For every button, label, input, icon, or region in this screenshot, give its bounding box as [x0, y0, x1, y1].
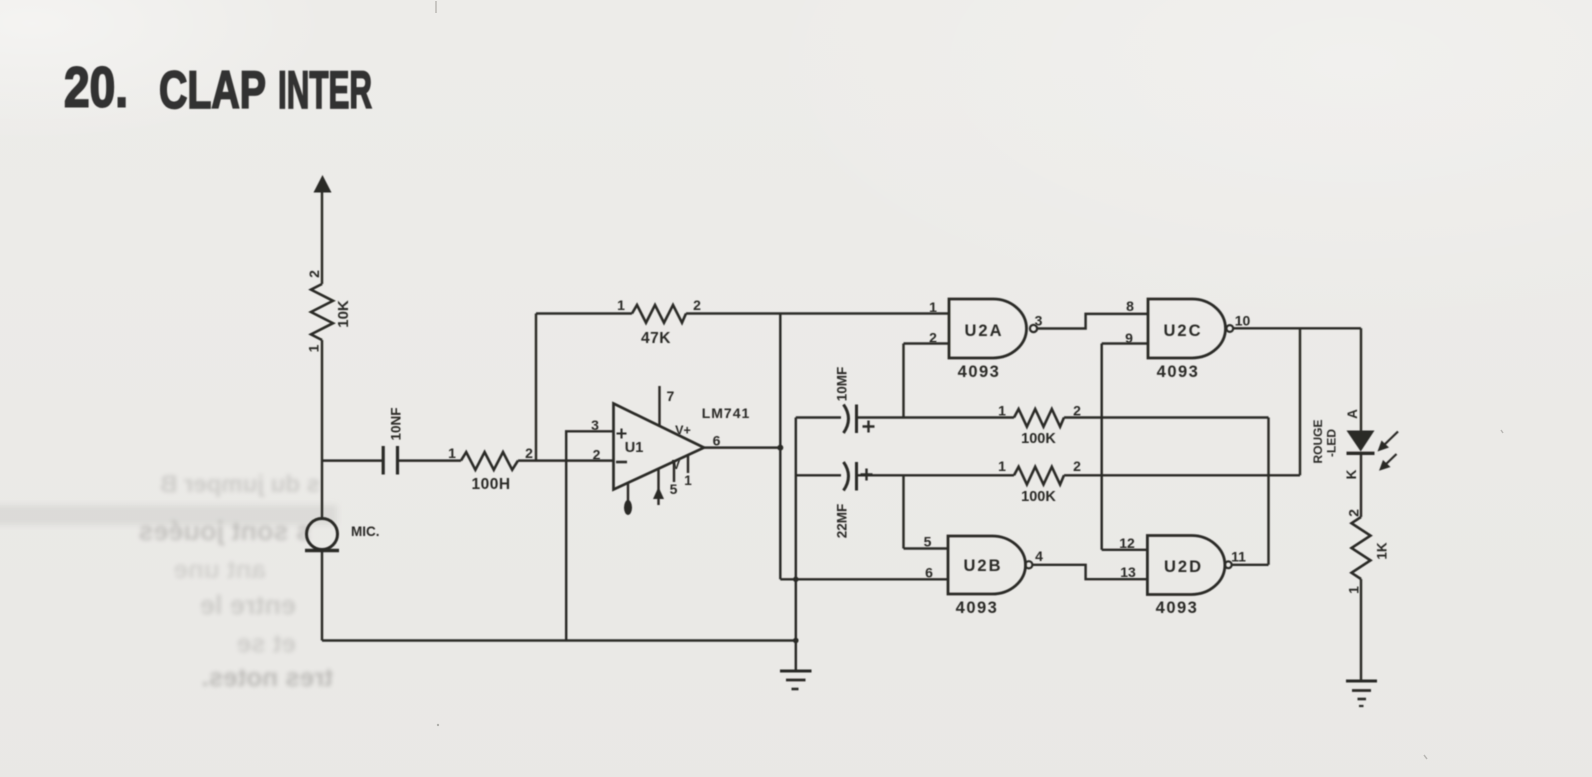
svg-text:10MF: 10MF: [835, 367, 850, 402]
svg-text:U1: U1: [625, 440, 644, 456]
wire U2D out riser to 100K top: [1267, 418, 1269, 565]
title: 20. CLAP INTER: [64, 56, 372, 121]
node dot ground-bottom: [793, 638, 799, 644]
wire U2B pin5: [904, 547, 949, 549]
wire node to 10NF: [322, 459, 383, 461]
wire U2A pin2: [904, 342, 950, 344]
svg-text:4093: 4093: [1157, 363, 1200, 381]
wire feedback left vertical: [535, 314, 537, 461]
svg-text:INTER: INTER: [278, 61, 372, 120]
svg-text:5: 5: [670, 481, 678, 497]
wire U2C pin9: [1102, 342, 1148, 344]
wire U2D pin12: [1102, 549, 1148, 551]
wire U2B out step to U2D pin13: [1033, 565, 1148, 579]
ghost text line: tres notes: [183, 662, 333, 693]
LED light arrow 2: [1384, 454, 1397, 467]
wire feedback top rail to U2A pin1: [536, 312, 949, 314]
ghost text line: entre le: [127, 590, 296, 621]
wire 1K to ground: [1360, 579, 1362, 681]
svg-text:LM741: LM741: [702, 405, 751, 421]
svg-text:1: 1: [684, 473, 692, 488]
svg-text:6: 6: [713, 433, 721, 449]
svg-text:4093: 4093: [1156, 599, 1199, 617]
wire cap row bottom: [796, 474, 841, 476]
ghost text line: et se: [219, 628, 296, 659]
svg-text:11: 11: [1231, 549, 1246, 565]
wire U2A out step to U2C pin8: [1037, 314, 1148, 329]
svg-text:1: 1: [998, 403, 1006, 419]
svg-text:100K: 100K: [1021, 431, 1056, 447]
wire mic down: [321, 551, 323, 641]
op-amp minus sign: [616, 461, 627, 464]
wire ground rail vertical: [795, 418, 797, 672]
ghost text line: ant une: [154, 554, 266, 585]
svg-text:-LED: -LED: [1325, 429, 1339, 457]
svg-text:20.: 20.: [64, 56, 128, 120]
svg-text:2: 2: [593, 447, 601, 463]
wire U2C out to LED corner: [1233, 327, 1361, 329]
wire 22MF to 100K: [857, 474, 1015, 476]
wire bottom rail: [322, 639, 796, 641]
wire 22MF to U2B pin5 riser: [902, 475, 904, 548]
svg-text:4093: 4093: [956, 599, 999, 617]
op-amp pin 4 stub: [657, 469, 659, 505]
svg-text:U2A: U2A: [964, 322, 1003, 340]
op-amp plus sign: [617, 429, 627, 439]
op-amp pin 7 stub: [658, 386, 660, 426]
svg-text:K: K: [1344, 469, 1359, 479]
resistor R 100K bottom zigzag: [1014, 467, 1064, 485]
resistor R 100K top zigzag: [1014, 409, 1064, 427]
svg-text:2: 2: [693, 297, 701, 313]
svg-text:13: 13: [1120, 564, 1136, 580]
wire U2D out: [1232, 564, 1269, 566]
ground symbol left: [780, 670, 812, 673]
svg-text:7: 7: [667, 388, 675, 404]
wire U2B pin6 rail: [780, 578, 948, 580]
power arrow V+: [314, 175, 332, 193]
svg-text:100H: 100H: [471, 476, 510, 493]
wire U2C pin9 riser: [1100, 344, 1102, 550]
wire 100H to op-amp: [518, 459, 614, 461]
svg-text:U2B: U2B: [963, 557, 1002, 575]
node dot ground-pin6: [793, 577, 799, 583]
ghost band (bleed-through streak): [0, 505, 337, 525]
resistor R 47K zigzag: [632, 305, 686, 323]
svg-text:2: 2: [1073, 403, 1081, 419]
svg-text:V: V: [672, 458, 681, 472]
svg-text:100K: 100K: [1021, 489, 1056, 505]
svg-text:9: 9: [1125, 330, 1133, 346]
svg-text:U2C: U2C: [1163, 322, 1202, 340]
nand gate U2A: [949, 299, 1027, 358]
wire 100K top to U2D out corner: [1064, 416, 1269, 418]
svg-text:10: 10: [1235, 313, 1251, 329]
wire output bus vertical: [779, 314, 781, 580]
wire op-amp output pin6: [704, 446, 780, 448]
wire supply shaft: [321, 189, 323, 284]
svg-text:8: 8: [1126, 298, 1134, 314]
microphone MIC: [307, 519, 338, 550]
svg-text:3: 3: [1035, 313, 1043, 329]
svg-text:22MF: 22MF: [835, 504, 850, 539]
wire LED to 1K: [1360, 453, 1362, 517]
nand gate U2C: [1148, 299, 1226, 358]
op-amp pin 5 stub: [673, 462, 675, 482]
wire LED corner down: [1360, 328, 1362, 430]
svg-text:1: 1: [998, 458, 1006, 474]
op-amp pin 1 stub: [687, 455, 689, 473]
svg-text:1: 1: [448, 445, 456, 461]
svg-text:1: 1: [617, 297, 625, 313]
svg-text:1: 1: [1346, 586, 1362, 594]
svg-text:12: 12: [1119, 535, 1135, 551]
svg-text:V+: V+: [675, 424, 691, 438]
capacitor C 10MF: [844, 405, 849, 434]
svg-text:1K: 1K: [1375, 542, 1390, 560]
capacitor C 22MF: [844, 462, 849, 491]
LED D1 triangle: [1347, 431, 1375, 452]
svg-text:MIC.: MIC.: [351, 524, 380, 539]
svg-text:ROUGE: ROUGE: [1311, 419, 1325, 463]
LED cathode bar: [1347, 452, 1375, 455]
svg-text:3: 3: [591, 417, 599, 433]
svg-text:10NF: 10NF: [389, 407, 404, 440]
wire 100K bottom riser to LED rail: [1299, 328, 1301, 475]
LED light arrow 1: [1382, 432, 1398, 448]
svg-text:6: 6: [925, 565, 933, 581]
svg-text:U2D: U2D: [1164, 558, 1203, 576]
ghost text line: du jumper B: [127, 471, 320, 499]
wire U2A pin2 riser: [902, 344, 904, 418]
op-amp U1 triangle: [614, 404, 705, 490]
nand gate U2D: [1147, 536, 1225, 595]
wire 100K bottom to LED corner: [1064, 474, 1300, 476]
op-amp pin 8 stub: [627, 482, 629, 501]
wire riser pin3 to ground rail: [566, 431, 613, 640]
svg-text:47K: 47K: [641, 330, 671, 347]
svg-text:2: 2: [1346, 509, 1362, 517]
svg-text:4093: 4093: [958, 363, 1001, 381]
svg-text:2: 2: [306, 270, 322, 278]
wire 10K to mic: [321, 340, 323, 519]
svg-text:1: 1: [306, 344, 322, 352]
svg-text:4: 4: [1035, 548, 1043, 564]
capacitor C 10NF plates: [383, 446, 397, 475]
resistor R 100H zigzag: [461, 452, 518, 470]
ground symbol right: [1346, 680, 1377, 683]
ghost text line: s sont jouees: [92, 516, 311, 547]
svg-text:2: 2: [929, 330, 937, 346]
svg-text:10K: 10K: [335, 300, 352, 328]
svg-text:5: 5: [924, 534, 932, 550]
nand gate U2B: [948, 536, 1026, 594]
svg-text:2: 2: [525, 445, 533, 461]
wire 10MF to 100K: [857, 416, 1015, 418]
wire 10NF to 100H: [398, 459, 462, 461]
wire cap row top: [796, 416, 841, 418]
svg-text:2: 2: [1073, 458, 1081, 474]
svg-text:A: A: [1345, 409, 1360, 419]
svg-text:1: 1: [929, 299, 937, 315]
resistor R 1K zigzag: [1352, 517, 1371, 579]
svg-text:CLAP: CLAP: [159, 61, 266, 120]
node dot output: [777, 445, 783, 451]
resistor R 10K zigzag: [311, 284, 333, 340]
speck marks: [436, 1, 1503, 759]
